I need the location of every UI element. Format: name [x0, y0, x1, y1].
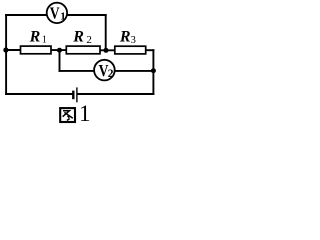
wire V1 branch vertical [105, 15, 107, 50]
resistor R1 box [21, 46, 52, 54]
wire bottom-left to battery [6, 93, 72, 95]
wire row left to R1 [6, 49, 20, 51]
resistor R2 box [66, 46, 100, 54]
caption character 图 (drawn) [60, 108, 75, 122]
wire battery to bottom-right [78, 93, 154, 95]
label R1 [29, 28, 47, 45]
wire V2 left leg vertical [59, 50, 61, 71]
label R2 [72, 29, 92, 47]
svg-text:1: 1 [60, 11, 66, 23]
wire R2 to R3 [100, 49, 115, 51]
wire left vertical [5, 15, 7, 94]
svg-text:2: 2 [86, 34, 92, 46]
wire V2 left horizontal [60, 70, 95, 72]
battery cell negative plate (short thick) [72, 91, 74, 100]
label R3 [119, 28, 136, 46]
svg-text:R: R [29, 28, 41, 45]
svg-text:1: 1 [42, 34, 47, 45]
voltmeter V2 [94, 60, 115, 81]
wire right vertical [152, 50, 154, 94]
resistor R3 box [115, 46, 146, 54]
svg-text:R: R [119, 28, 131, 45]
node junction dot between R2 and R3 (V1 tap) [104, 48, 109, 53]
node junction dot left (left wire / row) [3, 47, 8, 52]
svg-text:1: 1 [79, 101, 91, 126]
wire V2 right horizontal [115, 70, 154, 72]
battery cell positive plate (long thin) [76, 87, 78, 102]
node junction dot right (V2 tap on right wire) [151, 68, 156, 73]
svg-text:R: R [72, 29, 84, 46]
svg-text:3: 3 [131, 35, 136, 46]
svg-text:2: 2 [108, 68, 114, 80]
wire top-right horizontal [66, 14, 106, 16]
voltmeter V1 [47, 3, 67, 23]
wire R3 to right corner [146, 49, 154, 51]
wire R1 to R2 [51, 49, 66, 51]
node junction dot between R1 and R2 [57, 48, 62, 53]
svg-text:V: V [50, 3, 60, 22]
wire top-left horizontal [6, 14, 48, 16]
